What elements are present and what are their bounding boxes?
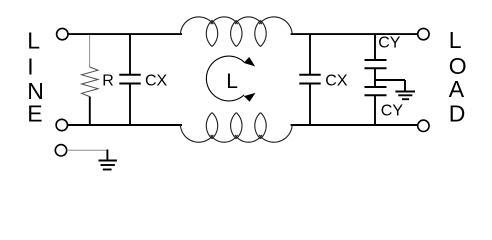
resistor R1 top lead [89,35,91,67]
wire CY midpoint [374,68,376,87]
svg-text:CY: CY [378,35,401,52]
wire bottom-right run [291,124,418,126]
capacitor CX2 bottom lead [309,84,311,126]
svg-text:CX: CX [145,73,168,90]
terminal ground-left [55,145,66,156]
wire ground tap vertical [404,80,406,92]
inductor L bottom winding [180,113,292,143]
capacitor CY2 bottom lead [374,95,376,125]
capacitor CY1 plates [365,59,387,61]
resistor R1 zigzag [82,67,98,97]
wire ground terminal horizontal [67,149,108,151]
inductor L top winding [180,17,292,47]
capacitor CX1 top lead [129,34,131,75]
wire top-right run [291,33,418,35]
capacitor CY1 top lead [374,34,376,60]
svg-text:E: E [27,101,42,127]
resistor R1 bottom lead [89,97,91,125]
capacitor CY2 plates [365,86,387,88]
wire bottom-left run [68,124,183,126]
svg-text:L: L [449,27,462,53]
svg-text:I: I [27,53,33,79]
svg-text:L: L [226,70,238,93]
svg-text:L: L [27,28,40,54]
capacitor CX1 plates [119,74,140,76]
terminal line bottom-left [56,119,67,130]
svg-text:CY: CY [381,103,404,120]
wire ground tap horizontal [375,79,405,81]
svg-text:D: D [449,101,466,127]
terminal load bottom-right [418,120,429,131]
node LOAD label [449,27,467,127]
ground chassis symbol [99,161,117,170]
terminal load top-right [418,28,429,39]
svg-text:R: R [102,73,114,90]
capacitor CX2 plates [299,74,320,76]
capacitor CX2 top lead [309,34,311,75]
terminal line top-left [57,28,68,39]
inductor L rotation arc [206,56,244,101]
rotation arrowhead bottom [244,93,256,102]
rotation arrowhead top [244,57,256,66]
node LINE label [27,28,44,127]
svg-text:CX: CX [325,73,348,90]
wire top-left run [68,33,182,35]
wire ground terminal vertical [106,150,108,161]
svg-text:A: A [449,76,465,102]
ground CY symbol [395,92,415,100]
capacitor CX1 bottom lead [129,84,131,126]
